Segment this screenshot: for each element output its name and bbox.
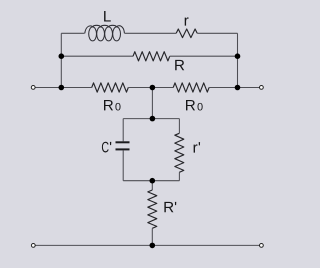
node at right vertical and R row (235, 53, 241, 59)
label r' (194, 142, 200, 152)
label R' (164, 202, 176, 212)
label R0 right (186, 100, 203, 111)
wire parallel box top edge (123, 118, 179, 120)
wire capacitor top lead (122, 119, 124, 142)
resistor r' (175, 133, 184, 172)
resistor R0 left (92, 83, 129, 92)
wire middle row center (128, 87, 173, 89)
label R0 left (104, 100, 121, 111)
node at left vertical and R row (59, 53, 65, 59)
node at parallel box bottom (150, 178, 156, 184)
wire bottom row (35, 244, 259, 246)
wire center vertical (151, 88, 153, 119)
terminal bottom left (31, 244, 35, 248)
wire top row right (197, 32, 237, 34)
wire top row between L and r (125, 32, 177, 34)
wire capacitor bottom lead (122, 150, 124, 180)
wire R' top lead (151, 181, 153, 190)
wire parallel box bottom edge (123, 180, 179, 182)
capacitor C' (116, 141, 130, 150)
node at left vertical and middle row (59, 85, 65, 91)
node at parallel box top (150, 116, 156, 122)
wire r' top lead (178, 119, 180, 134)
terminal middle right (260, 86, 264, 90)
wire right vertical (237, 33, 239, 87)
wire left vertical (60, 33, 62, 87)
wire middle row from left terminal (35, 87, 92, 89)
label R (175, 60, 184, 70)
terminal middle left (31, 86, 35, 90)
label C' (102, 142, 111, 153)
resistor R' (148, 190, 157, 228)
resistor R (133, 52, 170, 61)
wire R row left (61, 55, 133, 57)
resistor R0 right (173, 83, 209, 92)
node at right vertical and middle row (235, 85, 241, 91)
wire R row right (170, 55, 238, 57)
wire middle row to right terminal (209, 87, 260, 89)
resistor r (176, 29, 197, 38)
terminal bottom right (260, 244, 264, 248)
inductor L (85, 25, 125, 41)
label L (104, 11, 111, 21)
wire R' bottom lead (151, 228, 153, 245)
wire r' bottom lead (178, 172, 180, 180)
node at middle row center (150, 85, 156, 91)
label r (185, 17, 189, 25)
node at bottom row (150, 243, 156, 249)
wire top row left (61, 32, 84, 34)
